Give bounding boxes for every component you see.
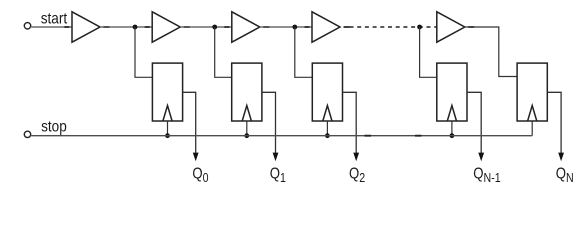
wire FF1 Q output — [183, 92, 196, 154]
wire FF2 Q output — [262, 92, 276, 154]
buffer U1 — [72, 12, 100, 42]
buffer U3 — [232, 12, 260, 42]
clock wire FF4 — [451, 121, 453, 136]
svg-text:stop: stop — [41, 119, 67, 136]
junction node tap2 — [212, 25, 217, 30]
wire start terminal to buffer U1 input — [31, 26, 72, 28]
pin stub U5 output — [468, 26, 474, 28]
junction clock FF3 — [325, 133, 330, 138]
flip-flop FF1 — [152, 63, 182, 121]
junction node tapN-1 — [417, 25, 422, 30]
svg-text:Q1: Q1 — [270, 165, 286, 185]
clock wire FF1 — [167, 121, 169, 136]
clock wire FF3 — [326, 121, 328, 136]
flip-flop FF3 — [312, 63, 342, 121]
wire U1 output to U2 input — [100, 26, 152, 28]
stop input terminal — [24, 131, 30, 137]
svg-text:Q0: Q0 — [192, 165, 208, 185]
pin stub U4 input — [305, 26, 310, 28]
buffer U5 — [437, 12, 465, 42]
flip-flop FF2 — [232, 63, 262, 121]
arrow QN-1 — [478, 153, 484, 162]
wire tap2 to FF2 D input — [215, 27, 232, 77]
wire U2 output to U3 input — [180, 26, 232, 28]
pin stub U3 input — [224, 26, 229, 28]
wire FF5 Q output — [547, 92, 561, 154]
wire tapN-1 to FF4 D input — [420, 27, 437, 77]
pin stub U2 output — [184, 26, 190, 28]
junction node tap3 — [292, 25, 297, 30]
clock wire FF5 — [531, 121, 533, 136]
arrow Q0 — [193, 153, 199, 162]
buffer U2 — [152, 12, 180, 42]
junction clock FF4 — [450, 133, 455, 138]
dash continuation stop line segment 2 — [415, 135, 422, 137]
pin stub U1 output — [104, 26, 110, 28]
svg-text:Q2: Q2 — [349, 165, 365, 185]
arrow QN — [558, 153, 564, 162]
arrow Q1 — [273, 153, 279, 162]
junction clock FF2 — [244, 133, 249, 138]
svg-text:QN: QN — [556, 165, 574, 185]
wire U3 output to U4 input — [260, 26, 312, 28]
junction clock FF1 — [165, 133, 170, 138]
wire tap1 to FF1 D input — [135, 27, 152, 77]
junction node tap1 — [133, 25, 138, 30]
pin stub U4 output — [344, 26, 350, 28]
dash continuation stop line segment 1 — [365, 135, 372, 137]
flip-flop FF5 — [517, 63, 547, 121]
wire FF4 Q output — [467, 92, 481, 154]
svg-text:start: start — [41, 10, 68, 27]
start input terminal — [24, 23, 30, 29]
clock wire FF2 — [246, 121, 248, 136]
wire stop distribution line — [31, 135, 532, 137]
wire FF3 Q output — [343, 92, 357, 154]
wire tap3 to FF3 D input — [295, 27, 313, 77]
wire dashed continuation U4 to U5 — [350, 26, 437, 28]
svg-text:QN-1: QN-1 — [473, 165, 500, 185]
pin stub U3 output — [263, 26, 269, 28]
wire U5 output to FF5 D input — [465, 27, 517, 77]
pin stub U2 input — [145, 26, 150, 28]
buffer U4 — [312, 12, 340, 42]
pin stub U1 input — [64, 26, 69, 28]
arrow Q2 — [353, 153, 359, 162]
flip-flop FF4 — [437, 63, 467, 121]
